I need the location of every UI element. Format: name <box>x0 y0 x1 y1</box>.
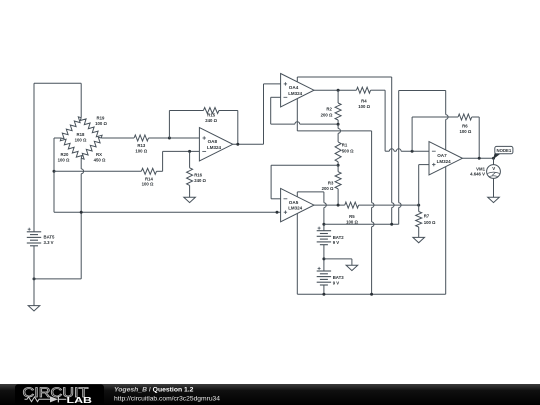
svg-text:100 Ω: 100 Ω <box>135 148 147 153</box>
resistor R2 <box>337 90 339 103</box>
node + line / bridge bottom wire <box>80 211 83 214</box>
resistor R6 <box>458 114 472 120</box>
svg-text:100 Ω: 100 Ω <box>142 182 154 187</box>
svg-text:OA8: OA8 <box>208 139 218 144</box>
node +9V / OA4 V+ vertical <box>390 223 393 226</box>
flag NODE1 <box>493 153 500 160</box>
battery BAT5 <box>27 231 41 233</box>
op-amp OA8 <box>199 128 232 161</box>
ground below BAT5 <box>28 306 40 311</box>
wire OA4 V- pin stub down <box>296 99 298 131</box>
resistor R20 <box>60 138 82 158</box>
node R16 junction <box>188 150 191 153</box>
node R6 feedback junction <box>411 150 414 153</box>
wire OA8 output to OA4 + input <box>233 143 264 145</box>
resistor R15 <box>203 108 219 114</box>
wire R2 to R1 (hops V- line) <box>337 124 339 128</box>
svg-text:NODE1: NODE1 <box>497 148 512 153</box>
wire OA5 V- pin stub down to rail <box>296 214 298 295</box>
svg-text:RX: RX <box>96 152 102 157</box>
node R2 top <box>337 89 340 92</box>
svg-text:OA4: OA4 <box>289 85 299 90</box>
svg-text:R5: R5 <box>349 214 355 219</box>
op-amp OA7 <box>429 142 462 175</box>
wire OA7 + input down to R7 node <box>419 164 429 166</box>
battery BAT2 <box>317 230 331 232</box>
resistor R7 <box>418 205 420 211</box>
svg-text:V: V <box>492 166 495 171</box>
wire +9V horizontal (y224) <box>324 223 399 225</box>
wire V- bottom rail <box>297 293 445 295</box>
ground below R16 <box>184 197 196 202</box>
svg-text:R3: R3 <box>328 180 334 185</box>
battery BAT3 <box>317 270 331 272</box>
wire OA7 output <box>462 157 493 159</box>
svg-text:240 Ω: 240 Ω <box>194 178 206 183</box>
svg-text:200 Ω: 200 Ω <box>322 186 334 191</box>
svg-text:R15: R15 <box>207 113 215 118</box>
svg-text:R2: R2 <box>326 107 332 112</box>
svg-text:9 V: 9 V <box>333 240 340 245</box>
svg-text:500 Ω: 500 Ω <box>342 148 354 153</box>
op-amp OA4 <box>281 74 314 107</box>
node BAT3 bottom on rail <box>322 293 325 296</box>
svg-text:R1: R1 <box>342 143 348 148</box>
svg-text:4.646 V: 4.646 V <box>470 172 485 177</box>
svg-text:LM324: LM324 <box>207 145 221 150</box>
resistor RX <box>81 137 101 159</box>
node R6 output junction <box>478 157 481 160</box>
resistor R5 <box>345 202 359 208</box>
resistor R13 <box>134 135 148 141</box>
node near OA5 + input <box>276 211 279 214</box>
resistor R16 <box>189 151 191 167</box>
svg-text:100 Ω: 100 Ω <box>75 138 87 143</box>
wire +9V up to OA7 V+ <box>398 91 400 203</box>
svg-text:Yogesh_B / Question 1.2: Yogesh_B / Question 1.2 <box>114 387 194 394</box>
ground mid battery <box>346 265 358 270</box>
wire OA5 output line <box>314 204 345 206</box>
voltmeter VM1 <box>493 158 495 164</box>
svg-text:LM324: LM324 <box>288 206 302 211</box>
resistor R18 <box>61 117 81 139</box>
node R2 bottom / feedback <box>337 123 340 126</box>
wire OA4 output line <box>314 89 356 91</box>
wire V- horizontal to x371.6 <box>297 130 371 132</box>
wire top rail (+9V) <box>297 76 391 78</box>
wire OA5 - feedback to R1/R3 node <box>271 198 281 200</box>
svg-text:100 Ω: 100 Ω <box>95 121 107 126</box>
wire R5 to R7/OA7 + node <box>359 204 419 206</box>
svg-text:LM324: LM324 <box>437 159 451 164</box>
node R7 top <box>417 204 420 207</box>
node R3 bottom <box>337 204 340 207</box>
wire OA4 feedback: - input to R2 bottom <box>271 96 281 98</box>
svg-text:OA5: OA5 <box>289 200 299 205</box>
wire R13 line: bridge right vertex to OA8 + <box>101 137 134 139</box>
wire top-left supply loop <box>34 82 81 84</box>
node VM1/NODE1 junction <box>492 157 495 160</box>
wire OA5 V+ pin stub <box>296 192 298 197</box>
svg-text:200 Ω: 200 Ω <box>321 112 333 117</box>
ground below VM1 <box>488 197 500 202</box>
svg-text:R7: R7 <box>424 214 430 219</box>
node BAT5 bottom <box>33 277 36 280</box>
svg-text:R13: R13 <box>137 143 145 148</box>
svg-text:100 Ω: 100 Ω <box>58 158 70 163</box>
svg-text:9 V: 9 V <box>333 280 340 285</box>
svg-text:R20: R20 <box>61 152 69 157</box>
node BAT2 top / +9V line <box>322 223 325 226</box>
svg-text:VM1: VM1 <box>476 166 485 171</box>
wire V- vertical down to rail <box>371 131 373 203</box>
wire R15 feedback loop <box>168 111 170 139</box>
svg-text:LM324: LM324 <box>288 91 302 96</box>
wire +9V vertical right <box>391 77 393 203</box>
node R15 output junction <box>236 143 239 146</box>
logo resistor-diode motif <box>25 397 51 402</box>
svg-text:100 Ω: 100 Ω <box>459 129 471 134</box>
wire OA4 V+ pin stub to top rail <box>296 77 298 82</box>
svg-text:BAT2: BAT2 <box>333 235 345 240</box>
node OA4 V- on rail <box>370 293 373 296</box>
svg-text:100 Ω: 100 Ω <box>424 220 436 225</box>
wire V+ down to BAT2 (hops output) <box>323 192 325 203</box>
resistor R4 <box>356 87 370 93</box>
wire OA5 + input line from bridge <box>54 211 281 213</box>
svg-text:100 Ω: 100 Ω <box>358 104 370 109</box>
resistor R3 <box>337 165 339 172</box>
resistor R19 <box>80 118 102 138</box>
resistor R14 <box>141 168 156 174</box>
svg-text:http://circuitlab.com/cr3c25dg: http://circuitlab.com/cr3c25dgmru34 <box>114 395 220 402</box>
svg-text:BAT5: BAT5 <box>44 235 56 240</box>
wire R4 right to OA7 - input <box>371 89 386 91</box>
ground below R7 <box>413 237 425 242</box>
op-amp OA5 <box>281 188 314 221</box>
svg-text:R16: R16 <box>194 172 202 177</box>
svg-text:R18: R18 <box>77 132 85 137</box>
wire BAT2- to BAT3+ <box>323 245 325 271</box>
wire R14 line: bridge branch to OA8 - <box>54 170 141 172</box>
svg-text:450 Ω: 450 Ω <box>94 158 106 163</box>
wire R6 feedback loop <box>411 117 413 151</box>
node bridge-left branch <box>53 170 56 173</box>
svg-text:LAB: LAB <box>67 395 93 405</box>
wire bridge bottom to battery loop <box>80 158 82 169</box>
wire rail up to OA7 V- pin <box>445 167 447 295</box>
svg-text:R4: R4 <box>361 99 367 104</box>
svg-text:240 Ω: 240 Ω <box>205 118 217 123</box>
svg-text:100 Ω: 100 Ω <box>346 219 358 224</box>
svg-text:R14: R14 <box>145 176 153 181</box>
svg-text:R19: R19 <box>97 116 105 121</box>
svg-text:OA7: OA7 <box>437 153 447 158</box>
svg-text:BAT3: BAT3 <box>333 275 345 280</box>
resistor R1 <box>335 142 341 162</box>
wire bridge left vertex to R14/OA5 lines <box>54 137 61 139</box>
node R1/R3 junction <box>337 164 340 167</box>
svg-text:R6: R6 <box>462 123 468 128</box>
logo badge <box>15 384 104 405</box>
node mid battery ground <box>322 257 325 260</box>
node R15 feedback junction <box>168 137 171 140</box>
svg-text:3.3 V: 3.3 V <box>44 240 54 245</box>
